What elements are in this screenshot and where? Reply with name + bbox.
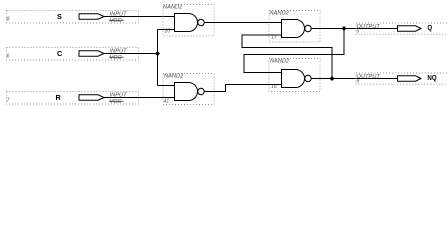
svg-text:NAND2: NAND2 [270, 11, 290, 17]
svg-text:OUTPUT: OUTPUT [357, 24, 381, 30]
svg-text:9: 9 [357, 79, 360, 85]
svg-text:NAND2: NAND2 [270, 59, 290, 65]
svg-text:Q: Q [427, 25, 432, 33]
wire S to U1 input A [104, 16, 175, 18]
node Q junction [342, 26, 347, 31]
svg-text:S: S [57, 12, 62, 21]
wire feedback NQ to U2 input B [242, 35, 332, 79]
input pin R [7, 92, 139, 106]
input pin C [7, 48, 139, 62]
nand2 U1 (inst 20) [163, 5, 214, 37]
svg-text:NAND2: NAND2 [164, 74, 184, 80]
nand2 U2 (inst 17) [269, 11, 320, 43]
svg-text:C: C [57, 49, 63, 58]
svg-text:NQ: NQ [427, 75, 436, 83]
node C junction [155, 51, 160, 56]
nand2 U3 (inst 16) [269, 59, 320, 92]
svg-text:VCC: VCC [110, 99, 123, 105]
wire R to U4 input B [104, 97, 175, 99]
node NQ junction [330, 76, 335, 81]
input pin S [7, 11, 139, 25]
wire node C vertical [157, 30, 159, 86]
svg-text:R: R [56, 93, 62, 102]
wire to U1 input B [158, 29, 175, 31]
wire U4 out to U3 input B [204, 85, 281, 92]
output pin NQ [356, 73, 447, 85]
svg-text:5: 5 [357, 29, 360, 35]
svg-text:41: 41 [164, 99, 170, 105]
wire C to node [104, 53, 158, 55]
svg-text:20: 20 [164, 29, 171, 35]
svg-text:6: 6 [7, 54, 10, 60]
wire to U4 input A [158, 85, 175, 87]
svg-text:7: 7 [7, 98, 10, 104]
svg-text:8: 8 [7, 17, 10, 23]
wire feedback Q to U3 input A [244, 29, 344, 73]
wire U1 out to U2 input A [204, 22, 281, 24]
wire U2 out to Q [311, 28, 397, 30]
svg-text:NAND2: NAND2 [163, 5, 183, 11]
svg-text:VCC: VCC [110, 18, 123, 24]
svg-text:VCC: VCC [110, 55, 123, 61]
svg-text:OUTPUT: OUTPUT [357, 74, 381, 80]
output pin Q [356, 23, 447, 35]
wire U3 out to NQ [311, 78, 397, 80]
nand2 U4 (inst 41) [163, 74, 214, 105]
svg-text:16: 16 [271, 84, 277, 90]
